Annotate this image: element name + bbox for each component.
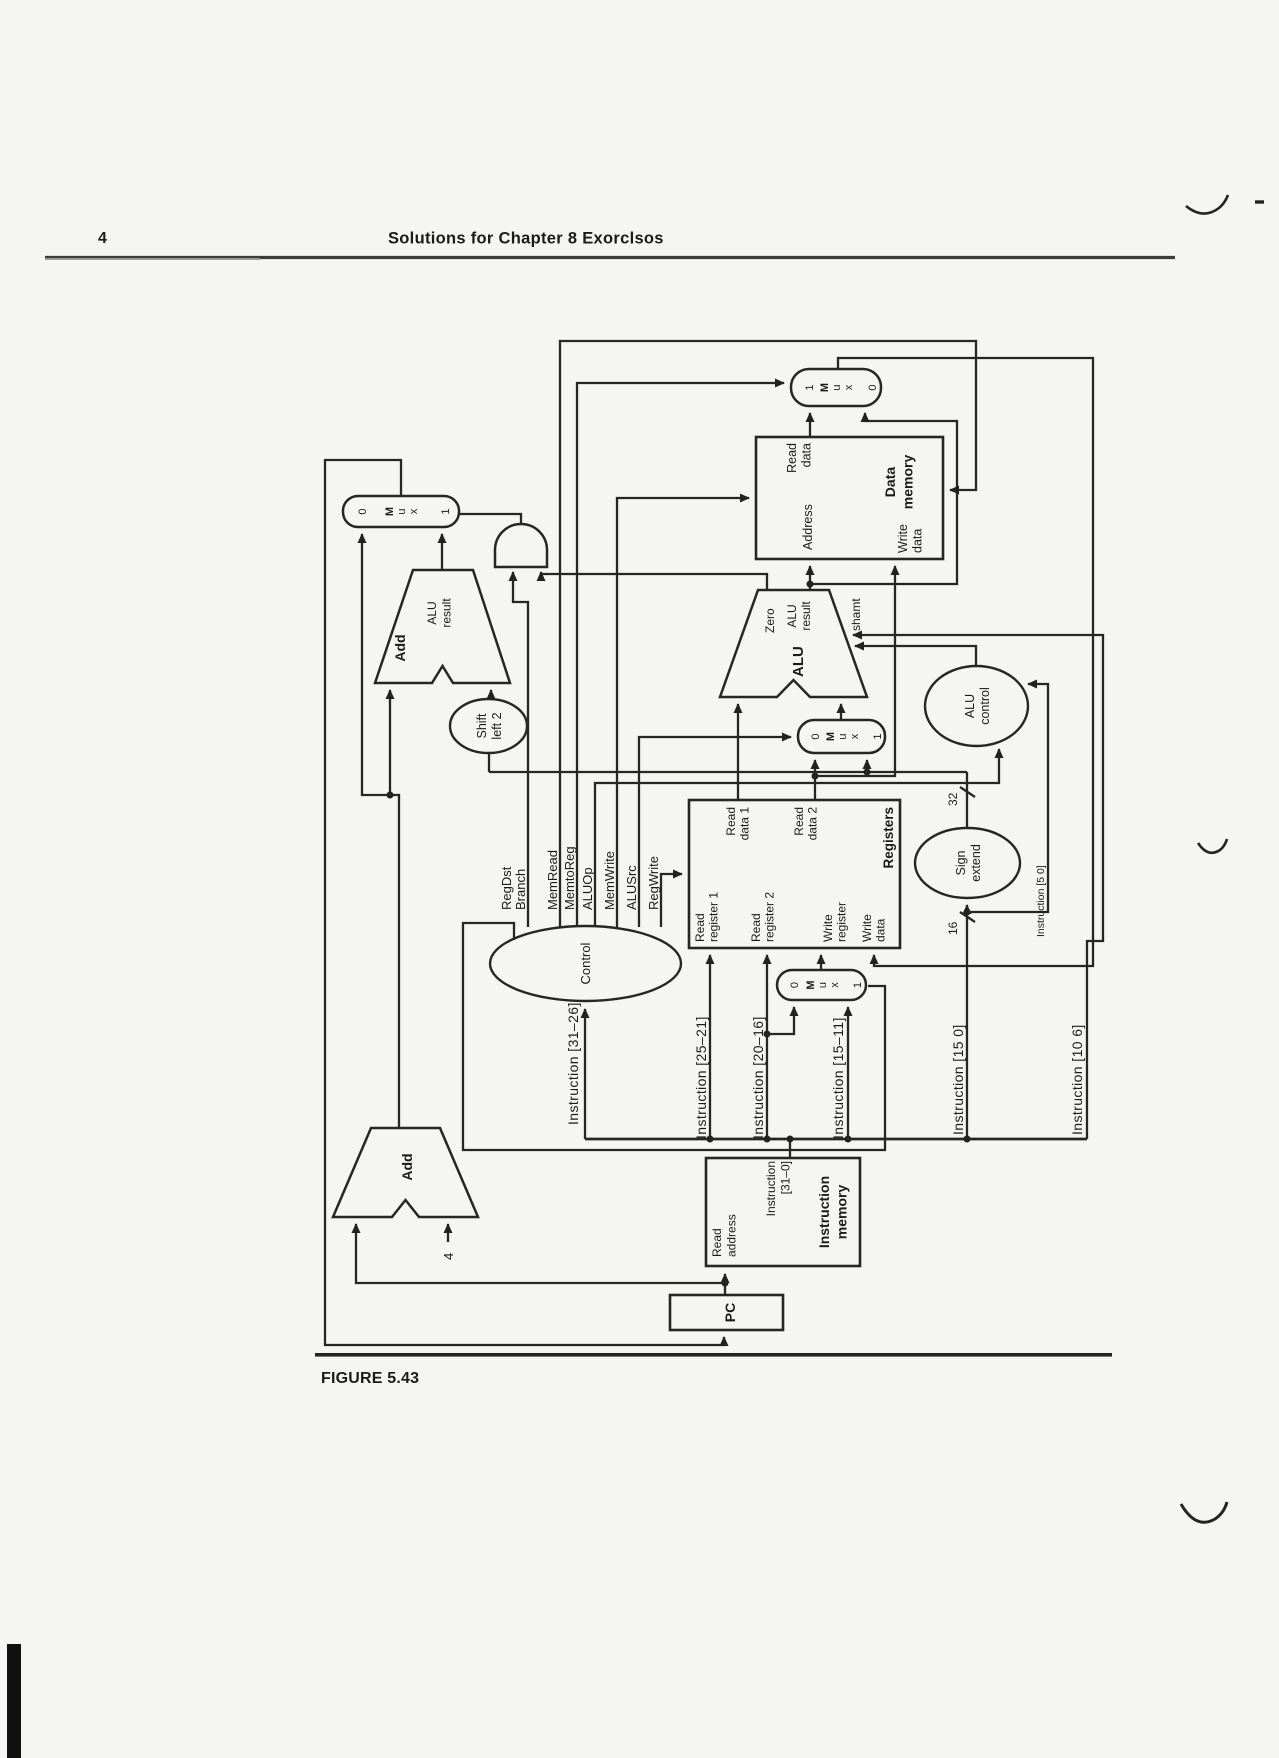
wire PCSrc mux output feedback to PC (325, 460, 724, 1345)
wire sign extend output (966, 772, 968, 828)
mux RegDst (777, 970, 866, 1000)
svg-text:shamt: shamt (849, 598, 863, 631)
wire ALU Zero to AND gate (541, 572, 767, 590)
svg-text:data: data (911, 529, 925, 553)
svg-text:Read: Read (792, 807, 806, 836)
scan artifact crescent middle right (1198, 839, 1227, 853)
svg-text:x: x (849, 733, 861, 739)
node read register 2 tap (764, 1031, 771, 1038)
svg-text:Solutions for Chapter 8 Exorcl: Solutions for Chapter 8 Exorclsos (388, 230, 664, 248)
svg-text:M: M (819, 383, 831, 392)
control unit oval (490, 926, 681, 1001)
svg-text:1: 1 (872, 733, 884, 739)
wire ALUOp signal to ALU control (595, 749, 999, 927)
svg-text:Shift: Shift (475, 713, 489, 739)
svg-text:u: u (831, 384, 843, 390)
svg-text:4: 4 (441, 1253, 456, 1260)
wire shamt instruction 10-6 to ALU (853, 635, 1103, 1139)
32-bit slash and label (960, 787, 975, 797)
svg-text:x: x (843, 384, 855, 390)
svg-text:Data: Data (882, 467, 898, 498)
wire sign extend line to shift left 2 input (488, 753, 490, 772)
svg-text:ALUOp: ALUOp (580, 867, 595, 910)
svg-text:M: M (805, 980, 817, 989)
wire ALUSrc mux output to ALU input 2 (840, 704, 842, 720)
sign extend unit (915, 828, 1020, 898)
svg-text:Instruction: Instruction (764, 1161, 778, 1216)
node bus tap read register 1 (707, 1136, 714, 1143)
wire instruction 15-0 to sign extend (966, 905, 968, 1139)
wire PC to instruction memory read address (724, 1274, 726, 1295)
svg-text:Read: Read (749, 913, 763, 942)
svg-text:1: 1 (852, 982, 864, 988)
node PC+4 junction (387, 792, 394, 799)
svg-text:data 2: data 2 (806, 807, 820, 841)
svg-text:0: 0 (810, 733, 822, 739)
scan artifact crescent top right (1186, 195, 1228, 214)
wire data memory read data to MemtoReg mux input 1 (809, 413, 811, 437)
wire RegDst mux output to write register (820, 955, 822, 970)
wire RegWrite signal to registers (661, 874, 682, 927)
wire Branch signal to AND gate (513, 572, 528, 927)
wire shift left 2 output to branch adder lower input (490, 690, 492, 699)
node read data 2 tap (812, 773, 819, 780)
svg-text:Write: Write (860, 914, 874, 942)
svg-text:data 1: data 1 (738, 807, 752, 841)
wire AND gate output to PCSrc mux select (459, 514, 521, 524)
svg-text:ALU: ALU (790, 646, 807, 677)
data memory (756, 437, 943, 559)
svg-text:Add: Add (399, 1153, 415, 1180)
wire riser tap to ALUSrc mux input 1 (866, 760, 868, 772)
svg-text:Instruction [10 6]: Instruction [10 6] (1069, 1024, 1085, 1135)
wire Add output to PCSrc mux input 0 (362, 534, 399, 1128)
wire branch adder output to PCSrc mux input 1 (441, 534, 443, 570)
ALU control unit (925, 666, 1028, 746)
svg-text:Instruction [20–16]: Instruction [20–16] (750, 1016, 766, 1139)
svg-text:result: result (440, 598, 454, 628)
svg-text:left 2: left 2 (490, 712, 504, 739)
svg-text:x: x (829, 982, 841, 988)
scan artifact crescent bottom right (1181, 1502, 1227, 1522)
svg-text:ALU: ALU (785, 604, 799, 627)
node bus tap mux 1 (845, 1136, 852, 1143)
adder Add (PC+4) (333, 1128, 478, 1217)
svg-text:Write: Write (821, 914, 835, 942)
svg-text:u: u (817, 982, 829, 988)
svg-text:RegDst: RegDst (499, 866, 514, 910)
adder Add ALU result (branch adder) (375, 570, 510, 683)
wire read data 1 to ALU input 1 (737, 704, 739, 800)
scan black bar bottom left (7, 1644, 21, 1758)
svg-text:Instruction [31–26]: Instruction [31–26] (565, 1002, 581, 1125)
svg-text:ALU: ALU (963, 694, 977, 718)
svg-text:Write: Write (896, 524, 910, 553)
svg-text:ALU: ALU (425, 601, 439, 624)
svg-text:PC: PC (722, 1303, 738, 1322)
svg-text:[31–0]: [31–0] (779, 1161, 793, 1194)
node bus tap read register 2 (764, 1136, 771, 1143)
svg-text:register 2: register 2 (763, 892, 777, 942)
svg-text:data: data (874, 918, 888, 942)
svg-text:4: 4 (98, 230, 107, 247)
figure rule (315, 1353, 1112, 1357)
svg-text:1: 1 (804, 384, 816, 390)
wire RegDst signal around left to RegDst mux select (463, 923, 885, 1150)
mux ALUSrc (798, 720, 885, 753)
svg-text:Registers: Registers (881, 807, 896, 869)
svg-text:Instruction [15–11]: Instruction [15–11] (830, 1017, 846, 1139)
mux PCSrc (343, 496, 459, 527)
svg-text:0: 0 (789, 982, 801, 988)
svg-text:MemtoReg: MemtoReg (562, 846, 577, 910)
svg-text:Add: Add (392, 634, 408, 661)
svg-text:Instruction: Instruction (816, 1176, 832, 1248)
svg-text:Instruction [25–21]: Instruction [25–21] (693, 1016, 709, 1139)
svg-text:16: 16 (946, 921, 960, 935)
wire instruction 20-16 to read register 2 (766, 955, 768, 1139)
instruction memory (706, 1158, 860, 1266)
node PC output junction (722, 1280, 729, 1287)
svg-text:u: u (837, 733, 849, 739)
svg-text:Read: Read (693, 913, 707, 942)
svg-text:register 1: register 1 (707, 892, 721, 942)
registers file (689, 800, 900, 948)
mux MemtoReg (791, 369, 881, 406)
wire tap to RegDst mux input 0 (767, 1007, 794, 1034)
shift left 2 unit (450, 699, 527, 753)
node bus tap sign extend (964, 1136, 971, 1143)
wire PC+4 branch to Add ALU result upper input (389, 690, 391, 795)
wire instruction memory output to bus (789, 1139, 791, 1158)
svg-text:register: register (835, 902, 849, 942)
svg-text:32: 32 (946, 792, 960, 806)
svg-text:MemWrite: MemWrite (602, 851, 617, 910)
svg-text:x: x (408, 508, 420, 514)
svg-text:Instruction [5 0]: Instruction [5 0] (1035, 865, 1047, 937)
svg-text:u: u (396, 508, 408, 514)
wire sign extend output riser (489, 771, 967, 773)
wire instruction bus (585, 1138, 1087, 1141)
svg-text:1: 1 (440, 508, 452, 514)
svg-text:Branch: Branch (513, 869, 528, 910)
svg-text:Sign: Sign (954, 850, 968, 875)
ALU (720, 590, 867, 697)
svg-text:memory: memory (834, 1185, 850, 1240)
svg-text:M: M (825, 732, 837, 741)
svg-text:Address: Address (801, 504, 815, 550)
node bus instruction memory output (787, 1136, 794, 1143)
wire ALU result bypass to MemtoReg mux input 0 (810, 413, 957, 584)
16-bit slash and label (960, 912, 975, 922)
wire PC value up to Add (356, 1224, 725, 1283)
wire read data 2 to ALUSrc mux input 0 (814, 760, 816, 800)
svg-text:Zero: Zero (763, 608, 777, 633)
svg-text:0: 0 (357, 508, 369, 514)
svg-text:result: result (799, 601, 813, 631)
header rule (45, 256, 1175, 259)
svg-text:Read: Read (785, 443, 799, 473)
svg-text:memory: memory (900, 455, 916, 510)
svg-text:address: address (725, 1214, 739, 1257)
svg-text:extend: extend (969, 844, 983, 882)
svg-text:RegWrite: RegWrite (646, 856, 661, 910)
wire ALU control output to ALU (855, 646, 976, 666)
svg-text:Control: Control (578, 942, 593, 984)
node sign extend riser junction (864, 769, 871, 776)
wire MemRead signal to data memory (560, 341, 976, 927)
wire instruction 15-11 to RegDst mux input 1 (847, 1007, 849, 1139)
node ALU result tap (807, 581, 814, 588)
wire instruction 5-0 to ALU control (967, 684, 1048, 912)
svg-text:FIGURE 5.43: FIGURE 5.43 (321, 1370, 419, 1387)
AND gate (branch) (495, 524, 547, 567)
wire MemtoReg signal to MemtoReg mux select (577, 383, 784, 927)
svg-text:MemRead: MemRead (545, 850, 560, 910)
svg-text:control: control (978, 687, 992, 725)
svg-text:Read: Read (710, 1228, 724, 1257)
svg-text:Instruction [15 0]: Instruction [15 0] (950, 1024, 966, 1135)
PC register (670, 1295, 783, 1330)
svg-text:M: M (384, 507, 396, 516)
svg-text:data: data (800, 443, 814, 467)
wire read data 2 to data memory write data (815, 566, 895, 776)
svg-text:ALUSrc: ALUSrc (624, 865, 639, 910)
node funct field tap (964, 909, 971, 916)
constant 4 label and wire (441, 1224, 456, 1260)
wire ALUSrc signal to ALUSrc mux select (639, 737, 791, 927)
wire instruction 25-21 to read register 1 (709, 955, 711, 1139)
wire MemWrite signal to data memory (617, 498, 749, 927)
wire instruction 31-26 to control (584, 1009, 586, 1139)
wire ALU result to data memory address (809, 566, 811, 590)
wire MemtoReg mux output writeback to registers write data (838, 358, 1093, 966)
svg-text:Read: Read (724, 807, 738, 836)
svg-text:0: 0 (867, 384, 879, 390)
